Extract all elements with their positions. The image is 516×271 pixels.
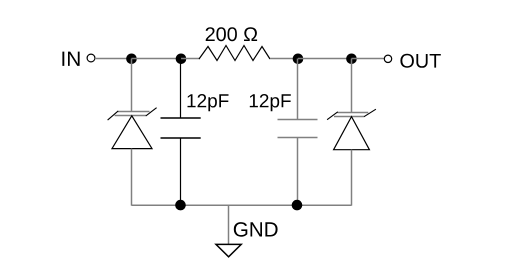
- wire D1 anode down to ground rail: [131, 149, 133, 206]
- wire capacitor C1 bottom plate down to ground rail (black): [180, 138, 182, 205]
- wire node C down to capacitor C2 top plate: [297, 59, 299, 120]
- wire D2 anode down to ground rail: [351, 150, 353, 206]
- ground symbol triangle: [216, 244, 241, 256]
- wire IN terminal to node A: [95, 58, 132, 60]
- capacitor C1 bottom plate: [161, 137, 201, 139]
- junction node B (top of C1): [176, 54, 187, 65]
- node IN label: [62, 52, 79, 66]
- terminal IN open circle: [87, 54, 95, 62]
- wire node D down to D2 cathode: [351, 59, 353, 113]
- wire ground stem: [228, 205, 230, 244]
- wire node D to OUT terminal: [352, 58, 385, 60]
- junction node D (top of D2): [346, 54, 357, 65]
- terminal OUT open circle: [384, 55, 391, 62]
- capacitor C2 bottom plate (gray): [278, 137, 318, 139]
- junction node C (top of C2): [293, 54, 304, 65]
- capacitor C2 top plate (gray): [278, 119, 318, 121]
- capacitor C1 top plate: [161, 117, 201, 119]
- junction on rail below C1: [175, 200, 186, 211]
- value label 12pF for C1: [188, 94, 229, 111]
- wire capacitor C2 bottom plate down to ground rail: [297, 138, 299, 206]
- value label 200 ohm for R1: [206, 27, 257, 41]
- wire node B down to capacitor C1 top plate (black): [180, 59, 182, 119]
- node GND label: [234, 222, 278, 237]
- zener diode D1 cathode bar (gray parallelogram lines with black wings): [108, 108, 157, 120]
- wire resistor R1 right lead to node C: [270, 58, 298, 60]
- value label 12pF for C2: [250, 94, 291, 111]
- wire node A to node B: [132, 58, 182, 60]
- ground rail wire: [132, 204, 352, 206]
- wire node C to node D: [298, 58, 352, 60]
- node OUT label: [400, 54, 440, 68]
- zener diode D2 cathode bar (gray parallelogram lines with black wings): [327, 109, 376, 120]
- resistor R1 zigzag: [199, 46, 270, 61]
- zener diode D2 anode triangle: [334, 117, 370, 150]
- wire node B to resistor R1 left lead: [181, 58, 200, 60]
- junction on rail below C2: [292, 200, 303, 211]
- zener diode D1 anode triangle: [112, 116, 152, 149]
- junction node A (top of D1): [126, 54, 137, 65]
- wire node A down to D1 cathode: [131, 59, 133, 112]
